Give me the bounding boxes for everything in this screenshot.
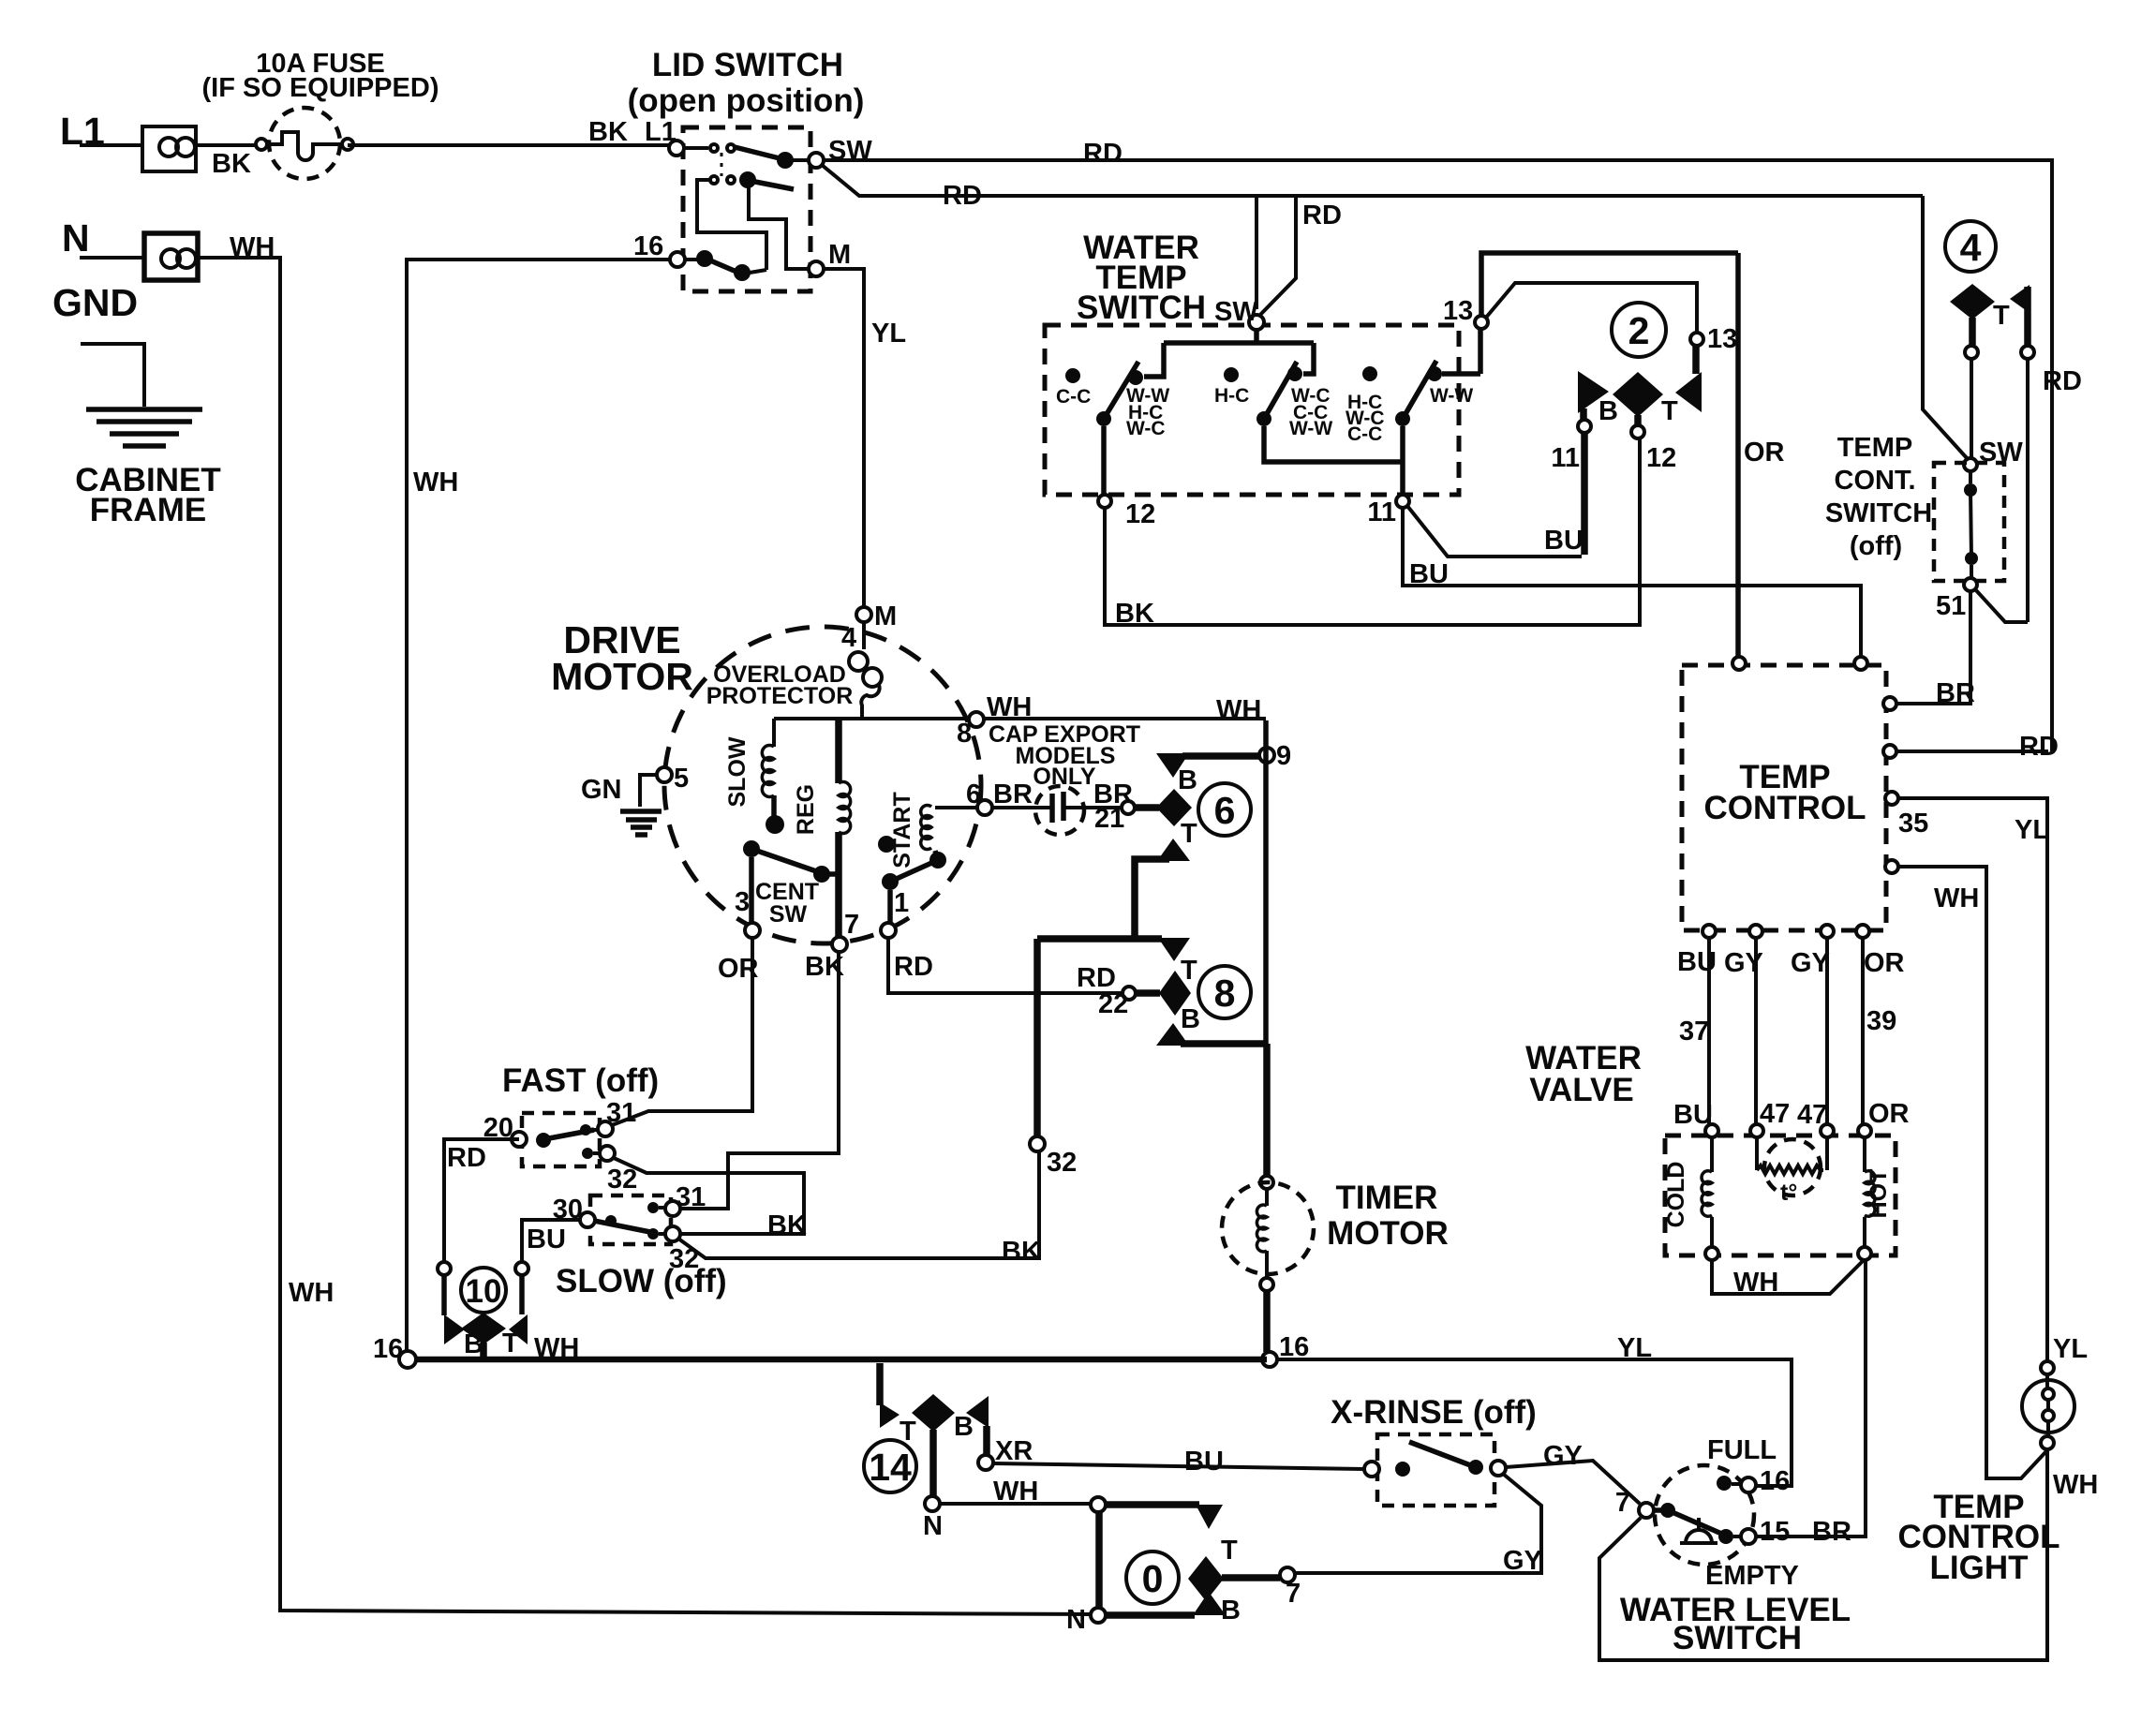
svg-text:MOTOR: MOTOR [1327,1215,1449,1252]
svg-text:14: 14 [869,1446,912,1489]
timer contact 0 N stem [1066,1510,1106,1635]
wire GY to valve 47 [1754,938,1758,1124]
cap export title [989,721,1140,790]
wire 51 to BR terminal [1896,591,1970,704]
timer contact 6 diamond [1136,789,1192,826]
svg-text:T: T [1221,1536,1238,1566]
fast switch box [522,1113,600,1166]
svg-text:15: 15 [1760,1517,1790,1547]
svg-text:GY: GY [1503,1546,1542,1576]
svg-text:10: 10 [466,1273,502,1310]
svg-text:OR: OR [1864,948,1905,978]
thermostat 4 right contact [2010,285,2034,359]
valve terminal labels [1673,1099,1910,1130]
water temp switch pole 2 [1256,362,1403,495]
lid switch contact row 1 [684,144,809,169]
water temp switch dot contact [1362,366,1377,381]
svg-text:13: 13 [1707,324,1737,354]
terminal BU riser [515,1262,528,1314]
timer contact 14 diamond [912,1394,955,1497]
svg-text:START: START [889,792,915,868]
svg-text:W-C: W-C [1126,418,1166,439]
water valve box [1665,1136,1896,1255]
temp control terminal RD [1883,732,2059,762]
svg-text:SWITCH: SWITCH [1077,289,1206,326]
svg-text:YL: YL [871,319,906,349]
node N [62,216,90,260]
svg-text:11: 11 [1551,443,1580,473]
drive motor dashed circle [664,627,981,943]
timer motor stem upper [1263,1044,1271,1175]
lid switch mechanical link [721,153,723,176]
temp cont switch terminal 51 [1936,578,1977,621]
water level switch arm [1654,1503,1742,1544]
svg-text:6: 6 [966,779,981,809]
wire fast 32 to slow 32 [614,1158,804,1234]
svg-text:T: T [502,1329,519,1358]
connector J2 (N) [144,233,198,280]
water level switch terminal 15 [1741,1517,1851,1547]
timer contact 6 T triangle [1135,819,1197,939]
motor START winding [878,792,977,923]
svg-text:B: B [1221,1596,1241,1626]
wire BU 37 to valve [1679,938,1709,1124]
lid switch terminal L1 [669,141,684,156]
svg-text:7: 7 [844,910,859,940]
timer contact 10 B triangle [444,1314,483,1359]
temp cont switch box [1934,463,2004,581]
svg-text:LIGHT: LIGHT [1930,1550,2029,1586]
terminal RD riser [438,1262,451,1315]
wire thermostat 4 right leg [2026,359,2030,622]
label BK motor lead [805,952,844,982]
water temp switch box [1045,325,1459,495]
svg-text:N: N [923,1511,943,1541]
terminal 16 bus left [373,1334,416,1368]
fast switch terminal 31 [598,1098,636,1136]
slow switch title [556,1263,727,1299]
svg-text:13: 13 [1443,296,1473,326]
fuse F1 10A [256,108,353,179]
svg-text:(IF SO EQUIPPED): (IF SO EQUIPPED) [202,73,439,103]
svg-text:(off): (off) [1850,531,1902,561]
terminal 22 [1077,963,1136,1019]
label EMPTY [1705,1561,1799,1591]
svg-text:PROTECTOR: PROTECTOR [706,683,854,709]
timer contact 14 T stub [880,1363,916,1447]
svg-text:WH: WH [289,1278,334,1308]
terminal 9 [1259,741,1291,771]
svg-text:SWITCH: SWITCH [1825,498,1932,528]
water level switch terminal 7 [1615,1488,1654,1518]
wire 51 jumper diagonal [1975,589,2028,622]
timer contact 8 circle label [1198,966,1251,1018]
labels B T of thermostat 2 [1598,396,1678,426]
svg-text:BR: BR [1936,678,1975,708]
motor terminal 7 [832,910,859,952]
temp cont switch contacts [1964,471,1978,578]
slow switch terminal 32 [665,1226,699,1274]
svg-text:RD: RD [447,1143,486,1173]
svg-text:16: 16 [373,1334,403,1364]
temp control box [1682,665,1886,930]
wire N input [80,256,144,260]
svg-text:BK: BK [588,117,628,147]
wire BK fuse to lid switch [348,117,677,147]
svg-text:2: 2 [1628,309,1650,352]
wire 9 riser [1263,720,1269,1044]
wire GY to terminal 7 [1295,1474,1542,1576]
svg-text:FRAME: FRAME [90,492,206,528]
svg-text:BK: BK [1002,1237,1041,1267]
lid switch box [683,127,810,291]
water temp switch pole 1 [1096,362,1138,495]
svg-text:B: B [1598,396,1618,426]
temp control light [2022,1374,2074,1436]
timer motor stem lower [1263,1291,1271,1352]
svg-text:t°: t° [1780,1180,1797,1206]
wire BU 30 riser [522,1220,580,1262]
wire thermostat 11 stem [1581,433,1588,555]
x-rinse title [1331,1394,1537,1431]
timer contact 10 T triangle [502,1314,528,1358]
slow switch terminal 30 [553,1195,595,1227]
thermostat 2 left contact B [1551,371,1609,473]
water temp switch title [1077,230,1206,326]
thermostat 4 diamond [1950,284,1995,359]
svg-text:WH: WH [2053,1470,2098,1500]
wire RD2 lid SW run [822,165,1923,211]
svg-text:4: 4 [841,623,856,653]
svg-text:BU: BU [1409,559,1449,589]
lid switch contact row 3 [685,250,766,281]
svg-text:MOTOR: MOTOR [551,655,693,698]
svg-text:16: 16 [633,231,663,261]
connector J1 (L1) [142,126,196,171]
lid switch wire to M terminal [749,187,809,269]
wire BR valve to level switch [1756,1260,1866,1536]
water valve HOT coil [1865,1137,1892,1247]
label OR motor lead [718,954,759,984]
temp control terminal 35 [1885,792,2049,1361]
svg-text:EMPTY: EMPTY [1705,1561,1799,1591]
lid switch contact row 2 [697,171,794,270]
svg-text:RD: RD [894,952,933,982]
water valve title [1525,1040,1642,1108]
lid switch terminal M [809,240,851,276]
water valve COLD coil [1663,1137,1712,1247]
svg-text:GN: GN [581,775,622,805]
svg-text:WH: WH [1216,695,1261,725]
svg-text:FULL: FULL [1707,1435,1777,1465]
svg-text:RD: RD [943,181,982,211]
timer contact 14 circle label [864,1440,916,1492]
svg-text:3: 3 [735,887,750,917]
svg-text:H-C: H-C [1214,385,1249,407]
svg-text:W-W: W-W [1430,385,1473,407]
svg-text:SLOW: SLOW [724,736,751,807]
labels H-C W-C C-C [1346,392,1385,445]
labels BU GY GY OR [1677,947,1905,978]
svg-text:C-C: C-C [1056,386,1091,408]
svg-text:TIMER: TIMER [1336,1180,1438,1216]
svg-text:COLD: COLD [1663,1162,1689,1228]
water temp switch terminal SW [1214,297,1264,330]
wire BK slow 31 to motor 7 [680,953,839,1240]
svg-text:7: 7 [1615,1488,1630,1518]
timer contact 10 circle label [461,1268,506,1313]
svg-text:OR: OR [1868,1099,1910,1129]
svg-text:YL: YL [1617,1333,1652,1363]
lid switch S1 title [628,47,865,119]
water temp switch feed bus [1128,330,1314,385]
svg-text:HOT: HOT [1866,1169,1892,1219]
svg-text:BU: BU [527,1225,566,1254]
svg-text:RD: RD [1083,139,1123,169]
svg-text:BK: BK [767,1210,807,1240]
svg-text:SLOW (off): SLOW (off) [556,1263,727,1299]
wire WH main bus [408,1333,1267,1363]
temp cont switch terminal SW [1964,438,2023,471]
svg-text:VALVE: VALVE [1529,1072,1634,1108]
svg-text:BK: BK [1115,599,1154,629]
motor terminal 3 [735,887,760,938]
terminal XR [978,1436,1033,1470]
timer contact 8 diamond [1137,971,1191,1016]
svg-text:GY: GY [1543,1441,1583,1471]
terminal N of 14 [923,1496,943,1541]
wire OR 39 to valve [1863,938,1896,1124]
timer contact 14 B triangle [954,1396,989,1456]
svg-text:N: N [1066,1605,1086,1635]
temp control terminal BR [1883,678,1975,710]
x-rinse box [1377,1434,1494,1506]
motor terminal M [841,601,897,653]
wire 7 to bottom rail [1599,1450,2047,1660]
svg-text:B: B [1181,1004,1200,1034]
motor SLOW winding [724,719,784,834]
water temp switch terminal 11 [1367,495,1409,527]
wire BK to fuse [196,145,261,179]
wire RD2 to temp cont switch [1923,196,1968,459]
svg-text:32: 32 [1047,1148,1077,1178]
svg-text:35: 35 [1898,809,1928,839]
wire WH 14 to 0 [940,1477,1091,1507]
svg-text:(open position): (open position) [628,82,865,119]
wire 13 thin branch [1485,283,1697,333]
svg-text:ONLY: ONLY [1033,764,1095,790]
wire OR fast 31 to motor 3 [612,939,752,1125]
temp control light title [1897,1489,2059,1586]
wire 13 thick to OR [1481,253,1738,316]
svg-text:RD: RD [1302,200,1342,230]
svg-text:BU: BU [1544,526,1584,556]
slow switch box [590,1195,671,1244]
fast switch title [502,1062,659,1099]
thermostat 4 circle label [1945,221,1996,272]
svg-text:SWITCH: SWITCH [1673,1620,1802,1656]
timer contact 0 diamond [1188,1556,1280,1601]
water level switch title [1620,1592,1851,1656]
svg-text:7: 7 [1286,1579,1301,1609]
svg-text:REG: REG [793,784,819,835]
wire WH from lid 16 down [407,260,670,1351]
wire GY to level switch 7 [1506,1441,1640,1504]
wire BK slow 32 to timer 32 [678,1151,1041,1267]
drive motor title [551,618,693,698]
svg-text:YL: YL [2053,1334,2088,1364]
label 10A FUSE [202,49,439,103]
wire BK 12 to thermostat [1105,438,1640,629]
svg-text:WH: WH [413,468,458,497]
water temp switch terminal 12 [1098,495,1155,529]
svg-text:T: T [1661,396,1678,426]
water temp switch H-C contact [1214,367,1249,407]
svg-text:37: 37 [1679,1017,1709,1047]
svg-text:9: 9 [1276,741,1291,771]
label CABINET FRAME [75,462,221,528]
svg-text:WH: WH [993,1477,1038,1507]
water level switch bellows [1680,1518,1717,1543]
temp control light terminal YL [2041,1334,2088,1374]
timer contact 6 circle label [1198,783,1251,836]
temp control light terminal WH [2041,1436,2098,1500]
svg-text:16: 16 [1760,1466,1790,1496]
svg-text:5: 5 [674,764,689,794]
svg-text:WH: WH [1733,1268,1778,1298]
timer motor [1222,1176,1314,1291]
svg-text:M: M [874,601,897,631]
wire BU XR to x-rinse [993,1447,1364,1477]
motor cent sw [743,840,839,928]
fast switch terminal 32 [600,1146,637,1195]
wire BU 11 to thermostat [1407,506,1584,557]
thermostat 2 circle label [1612,303,1666,357]
x-rinse contacts [1364,1442,1506,1477]
label RD motor lead [894,952,933,982]
overload protector element [849,622,882,718]
svg-text:11: 11 [1367,497,1396,527]
wire RD 20 riser [444,1139,519,1262]
temp control bottom terminals [1702,925,1869,938]
timer contact 8 B triangle [1156,1004,1267,1046]
svg-text:W-W: W-W [1289,418,1332,439]
wire OR down to temp control [1738,253,1785,657]
svg-text:T: T [1181,819,1197,849]
motor terminal 6 [966,779,1033,815]
svg-text:1: 1 [894,888,909,918]
svg-text:39: 39 [1866,1006,1896,1036]
svg-text:B: B [954,1412,974,1442]
svg-text:T: T [1181,956,1197,986]
svg-text:GND: GND [52,281,138,324]
svg-text:BR: BR [993,779,1033,809]
temp control top terminals [1732,657,1867,670]
timer contact 10 diamond [461,1313,506,1357]
temp control title [1703,759,1866,826]
svg-text:SW: SW [769,901,808,928]
wire BU 11 to temp control [1403,508,1861,657]
svg-text:12: 12 [1125,499,1155,529]
svg-text:GY: GY [1791,948,1830,978]
svg-text:T: T [1993,301,2010,331]
fast switch contacts [536,1124,602,1159]
timer contact 0 circle label [1126,1551,1179,1604]
timer contact 0 T bus [1091,1497,1238,1566]
wire YL from lid M to motor [824,269,906,607]
svg-text:RD: RD [2019,732,2059,762]
svg-text:B: B [1178,765,1197,795]
svg-text:BU: BU [1184,1447,1224,1477]
terminal 13 thermostat [1690,324,1737,354]
svg-text:RD: RD [2043,366,2082,396]
wire to cabinet ground [81,344,144,407]
svg-text:0: 0 [1142,1557,1164,1600]
svg-text:8: 8 [1214,972,1236,1015]
ground symbol (cabinet frame) [86,409,202,446]
terminal 32 [1030,1136,1077,1178]
svg-text:32: 32 [607,1165,637,1195]
svg-text:TEMP: TEMP [1837,433,1913,463]
motor terminal 5 ground [581,764,689,835]
wire L1 input [80,143,142,147]
wire WH valve common [1712,1260,1863,1298]
wire RD1 lid SW to top right [824,139,2052,751]
water valve thermistor [1757,1137,1827,1206]
temp cont switch title [1825,433,1932,561]
svg-text:C-C: C-C [1347,423,1382,445]
svg-text:SW: SW [1214,297,1258,327]
label T of thermostat 4 [1993,301,2010,331]
svg-text:4: 4 [1960,226,1982,269]
timer contact 6 B triangle [1156,753,1263,795]
wire YL bus to level switch [1277,1333,1792,1486]
svg-text:FAST (off): FAST (off) [502,1062,659,1099]
labels W-W H-C W-C [1126,385,1169,439]
svg-text:YL: YL [2015,815,2049,845]
water level switch FULL contact [1707,1435,1777,1491]
svg-text:BR: BR [1812,1517,1851,1547]
svg-text:N: N [62,216,90,260]
water valve top terminals [1705,1124,1871,1137]
terminal 16 timer [1262,1332,1309,1367]
water level switch terminal 16 [1741,1466,1790,1496]
terminal 7 of 0 [1280,1567,1301,1609]
water temp switch terminal 13 [1443,296,1488,329]
wire WH neutral run [198,232,1091,1614]
water temp switch C-C contact [1056,368,1091,408]
water level switch circle [1655,1465,1754,1565]
svg-text:LID SWITCH: LID SWITCH [652,47,843,83]
svg-text:WH: WH [230,232,275,262]
fast switch terminal 20 [483,1113,527,1147]
wire RD branch to water temp switch [1256,196,1342,316]
motor terminal 8 [957,712,984,749]
node L1 [60,110,105,153]
svg-text:M: M [828,240,851,270]
svg-text:31: 31 [676,1182,706,1212]
svg-text:X-RINSE (off): X-RINSE (off) [1331,1394,1537,1431]
labels W-C C-C W-W [1289,385,1332,439]
svg-text:6: 6 [1214,789,1236,832]
slow switch terminal 31 [665,1182,706,1216]
timer contact 8 T bus [1037,938,1197,986]
svg-text:BK: BK [212,149,251,179]
motor terminal 1 [881,888,909,938]
svg-text:51: 51 [1936,591,1966,621]
water valve bottom terminals [1705,1247,1871,1260]
timer motor title [1327,1180,1449,1252]
